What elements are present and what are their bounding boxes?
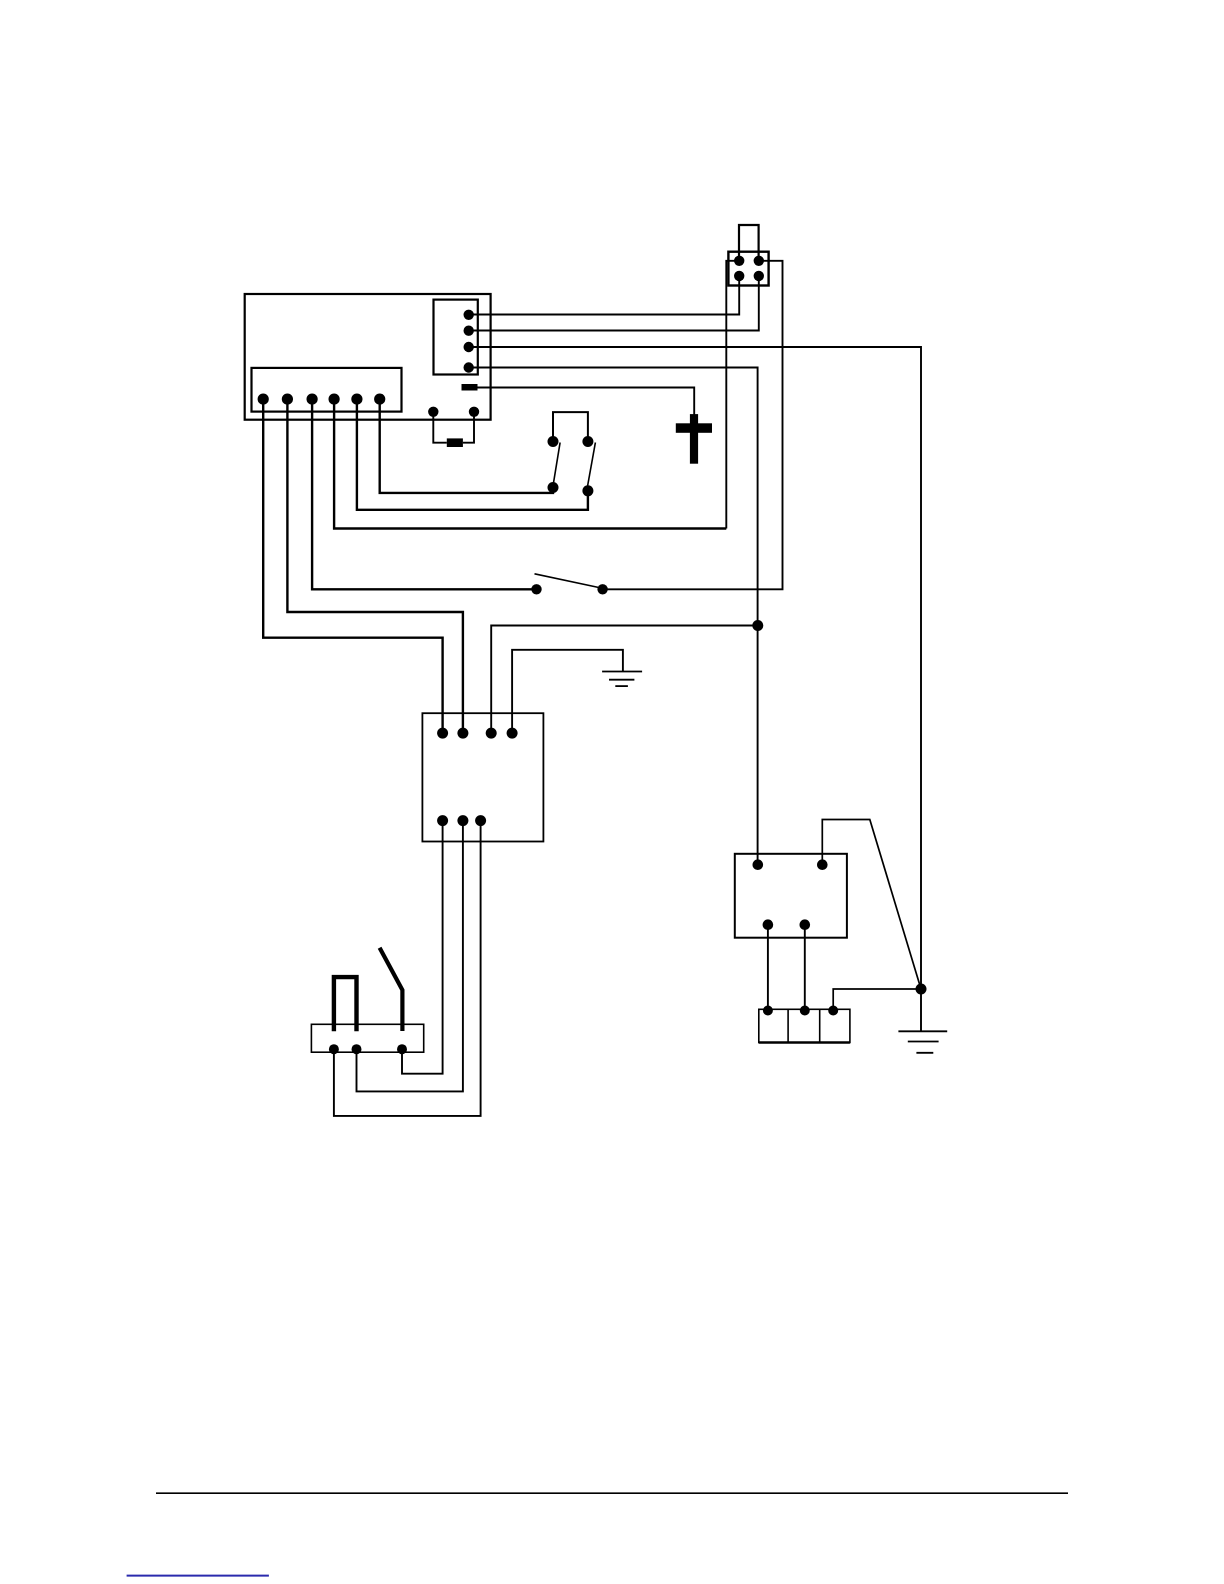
control unit box (245, 294, 491, 420)
switch S1 top right terminal (582, 436, 593, 447)
wire relay K2 pin 3 down (767, 925, 769, 1011)
horn coil symbol (334, 977, 357, 1031)
terminal 3 (307, 394, 318, 405)
switch S1 right blade (587, 443, 595, 488)
pad P1 (462, 384, 478, 391)
connector J2 body (728, 252, 768, 286)
header pin D (464, 362, 474, 372)
switch S2 left terminal (531, 584, 541, 594)
relay block pin 4 (507, 728, 518, 739)
ground G2 (898, 1031, 947, 1053)
wire relay block pin 6 to connector (357, 821, 463, 1092)
wire terminal 3 to switch S2 (312, 399, 536, 589)
relay block box (422, 713, 543, 841)
connector J2 pin 4 (754, 271, 764, 281)
switch S1 bottom left terminal (548, 482, 559, 493)
link underline (127, 1575, 269, 1577)
junction node B (916, 984, 927, 995)
wire J2 pin1 left drop (726, 261, 739, 529)
wire relay block pin 4 to ground G1 (512, 650, 623, 733)
fuse terminal right (469, 407, 479, 417)
relay K2 box (735, 854, 847, 938)
switch S2 right terminal (597, 584, 607, 594)
footer rule (156, 1492, 1068, 1494)
junction node A (752, 620, 763, 631)
wire terminal 2 to relay block pin 2 (287, 399, 463, 733)
relay K2 pin 1 (753, 859, 764, 870)
wire junction to relay block pin 3 (491, 626, 758, 734)
wire J2 pin2 right drop (603, 261, 783, 590)
fuse body (447, 438, 463, 447)
fuse terminal left (428, 407, 438, 417)
wire relay block pin 7 to connector (334, 821, 481, 1116)
lamp connector strip (759, 1009, 850, 1042)
switch S1 left blade (553, 443, 560, 484)
horn terminal 2 (352, 1044, 362, 1054)
wire relay block pin 5 to connector (402, 821, 443, 1074)
relay K2 pin 4 (800, 919, 811, 930)
header pin B (464, 326, 474, 336)
switch S2 blade (535, 574, 599, 588)
relay block pin 7 (475, 815, 486, 826)
lamp terminal 1 (763, 1006, 773, 1016)
relay block pin 3 (486, 728, 497, 739)
header pin C (464, 342, 474, 352)
wire pad to antenna (478, 388, 695, 415)
wire terminal 4 to J2 feed (334, 399, 726, 528)
connector J2 pin 1 (734, 256, 744, 266)
wire terminal 5 to switch S1 right (357, 399, 588, 510)
fuse wires (433, 412, 474, 443)
terminal strip box (252, 368, 402, 412)
terminal 2 (282, 394, 293, 405)
relay block pin 5 (437, 815, 448, 826)
horn connector strip (311, 1024, 423, 1052)
horn lever (380, 948, 403, 1031)
wire J2 pin3 to control unit pin A (469, 276, 740, 315)
pin header box (434, 300, 478, 375)
lamp terminal 3 (828, 1006, 838, 1016)
antenna cross vertical bar (690, 414, 698, 464)
horn terminal 3 (397, 1044, 407, 1054)
terminal 1 (258, 394, 269, 405)
lamp terminal 2 (800, 1006, 810, 1016)
relay K2 pin 3 (763, 919, 774, 930)
terminal 6 (374, 394, 385, 405)
wire J2 pin4 to control unit pin B (469, 276, 759, 331)
wire junction B to strip (833, 989, 921, 1011)
switch S1 top left terminal (548, 436, 559, 447)
terminal 5 (351, 394, 362, 405)
relay block pin 1 (437, 728, 448, 739)
wire relay K2 pin 4 down (804, 925, 806, 1011)
header pin A (464, 310, 474, 320)
wire terminal 1 to relay block pin 1 (263, 399, 442, 733)
relay block pin 6 (457, 815, 468, 826)
switch S1 bottom right terminal (582, 485, 593, 496)
wire terminal 6 to switch S1 left (380, 399, 553, 493)
relay block pin 2 (457, 728, 468, 739)
connector J2 housing tab (739, 225, 759, 261)
antenna cross horizontal bar (676, 423, 712, 433)
ground G1 (602, 672, 642, 687)
connector J2 pin 3 (734, 271, 744, 281)
wire relay K2 pin 2 to ground bus (822, 820, 921, 990)
switch S1 bridge (553, 412, 588, 441)
relay K2 pin 2 (817, 859, 828, 870)
terminal 4 (329, 394, 340, 405)
wire pin C to ground bus (469, 347, 921, 1031)
wire pin D center drop (469, 368, 758, 865)
horn terminal 1 (329, 1044, 339, 1054)
connector J2 pin 2 (754, 256, 764, 266)
